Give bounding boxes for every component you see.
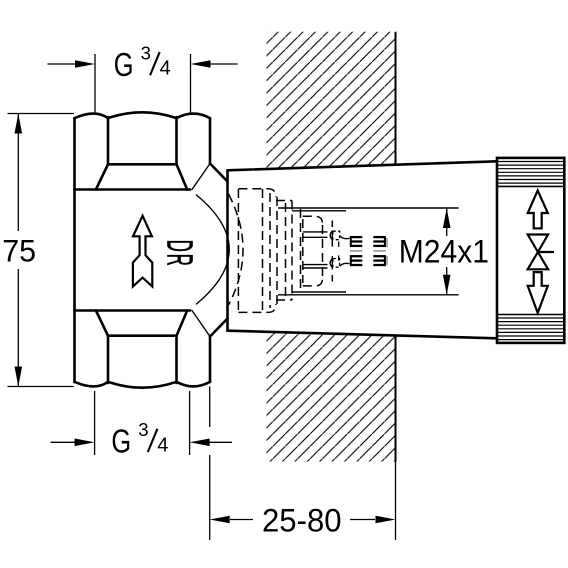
- upper full-width line: [75, 188, 191, 191]
- tee junction to outlet: [192, 164, 229, 337]
- spindle step double lines: [303, 231, 328, 233]
- DR label: [160, 240, 200, 266]
- top knurl band: [497, 162, 564, 184]
- wall front face line: [395, 32, 397, 462]
- dashed step vertical: [269, 193, 271, 308]
- lower right block: [373, 256, 385, 265]
- right edge segments: [209, 118, 212, 164]
- protection cone outline: [228, 161, 498, 338]
- svg-text:G: G: [111, 423, 131, 460]
- spindle edge verticals: [331, 230, 333, 246]
- upper right block: [373, 237, 385, 246]
- svg-text:25-80: 25-80: [262, 502, 342, 539]
- top hex arcs: [75, 114, 109, 119]
- wall hatching top block: [250, 20, 410, 180]
- bottom chamfer slants: [96, 311, 108, 336]
- svg-text:G: G: [114, 47, 134, 84]
- sleeve up arrow: [528, 191, 548, 229]
- bottom knurl band: [497, 314, 564, 316]
- bottom hex arcs: [75, 382, 109, 387]
- sleeve valve symbol: [528, 235, 554, 270]
- dashed step horizontals: [276, 200, 292, 202]
- svg-text:R: R: [160, 254, 200, 266]
- valve body hex outline: [75, 112, 211, 387]
- dashed cap horizontals: [238, 189, 276, 197]
- top chamfer slants: [96, 164, 108, 189]
- wall hatching bottom block: [250, 320, 410, 475]
- svg-text:3: 3: [138, 419, 148, 440]
- dimension 75 left: [8, 114, 75, 387]
- cone hidden dashed internals: [229, 189, 333, 313]
- dimension G 3/4 bottom: [51, 391, 232, 455]
- dimension M24x1: [446, 208, 448, 295]
- svg-text:4: 4: [157, 434, 168, 456]
- sleeve down arrow: [528, 272, 548, 313]
- bottom facet horizontal: [108, 334, 177, 337]
- svg-text:75: 75: [2, 233, 36, 269]
- dimension G 3/4 top: [48, 54, 238, 113]
- thick slant bottom: [210, 319, 228, 337]
- svg-text:M24x1: M24x1: [399, 234, 489, 270]
- svg-text:D: D: [160, 240, 200, 252]
- flow arrow in body: [133, 216, 152, 287]
- small arcs: [330, 231, 332, 240]
- thread top lines / M24 extension lines: [278, 207, 459, 209]
- dimension 25-80: [210, 386, 396, 540]
- upper left block: [350, 237, 362, 246]
- wavy connectors: [340, 236, 350, 239]
- svg-text:4: 4: [160, 58, 171, 80]
- lower left block: [350, 256, 362, 265]
- axis gray lines: [350, 250, 362, 252]
- top facet horizontal: [108, 163, 177, 166]
- dashed dome arc: [229, 194, 244, 305]
- svg-text:3: 3: [141, 42, 151, 63]
- outlet dome arc: [197, 195, 230, 304]
- dashed cap verticals: [237, 189, 239, 313]
- bottom facet verticals: [107, 336, 110, 383]
- spindle thread blocks: [350, 236, 387, 266]
- thin slant bottom: [192, 311, 210, 337]
- top facet verticals: [107, 117, 110, 164]
- thin slant top: [192, 164, 210, 190]
- thick slant top: [210, 164, 228, 182]
- lower full-width line: [75, 309, 191, 312]
- spindle solid details: [278, 208, 459, 295]
- clip dashed squares: [333, 231, 340, 240]
- left edge: [73, 118, 76, 382]
- dashed step verticals 2: [291, 201, 293, 301]
- dashed spindle steps: [303, 216, 323, 224]
- right sleeve piece: [497, 158, 564, 343]
